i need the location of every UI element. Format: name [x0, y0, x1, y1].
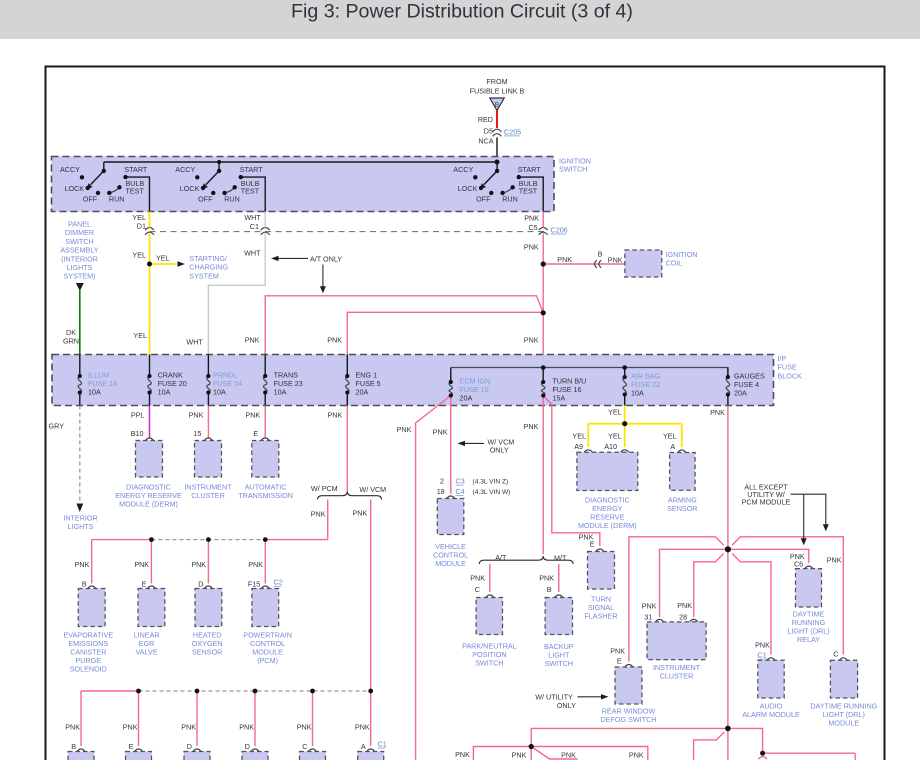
svg-text:10A: 10A — [88, 388, 101, 397]
svg-text:(4.3L VIN W): (4.3L VIN W) — [473, 489, 511, 496]
svg-text:A: A — [670, 442, 675, 451]
svg-text:(4.3L VIN Z): (4.3L VIN Z) — [473, 479, 509, 486]
svg-text:PNK: PNK — [608, 255, 623, 264]
svg-text:2: 2 — [440, 477, 444, 486]
svg-text:10A: 10A — [213, 388, 226, 397]
svg-text:C1: C1 — [757, 650, 766, 659]
svg-text:YEL: YEL — [608, 431, 622, 440]
svg-text:OFF: OFF — [198, 195, 213, 204]
svg-text:C: C — [302, 742, 307, 751]
svg-text:PNK: PNK — [239, 722, 254, 731]
svg-text:RUN: RUN — [502, 195, 518, 204]
svg-text:PNK: PNK — [397, 425, 412, 434]
svg-text:ACCY: ACCY — [175, 165, 195, 174]
svg-text:STARTING/: STARTING/ — [189, 254, 227, 263]
svg-text:LIGHTS: LIGHTS — [68, 522, 94, 531]
svg-text:LOCK: LOCK — [65, 184, 85, 193]
svg-text:C2: C2 — [274, 578, 283, 587]
svg-text:B: B — [71, 742, 76, 751]
svg-text:LOCK: LOCK — [458, 184, 478, 193]
svg-text:W/ VCM: W/ VCM — [359, 485, 386, 494]
svg-text:C1: C1 — [378, 739, 387, 748]
svg-text:SENSOR: SENSOR — [667, 504, 697, 513]
svg-text:MODULE: MODULE — [435, 559, 466, 568]
svg-text:DIMMER: DIMMER — [65, 228, 94, 237]
svg-text:PNK: PNK — [181, 722, 196, 731]
svg-text:MODULE: MODULE — [828, 719, 859, 728]
svg-text:PNK: PNK — [327, 335, 342, 344]
svg-text:C1: C1 — [250, 222, 259, 231]
svg-text:WHT: WHT — [186, 338, 203, 347]
svg-text:B: B — [547, 585, 552, 594]
svg-text:20A: 20A — [356, 388, 369, 397]
svg-text:28: 28 — [679, 613, 687, 622]
svg-text:WHT: WHT — [244, 213, 261, 222]
svg-text:C206: C206 — [551, 225, 568, 234]
svg-text:LIGHTS: LIGHTS — [67, 263, 93, 272]
svg-text:B10: B10 — [131, 429, 144, 438]
svg-text:10A: 10A — [274, 388, 287, 397]
svg-text:A/T: A/T — [495, 553, 507, 562]
svg-text:PNK: PNK — [455, 750, 470, 759]
svg-text:YEL: YEL — [608, 408, 622, 417]
svg-text:FROM: FROM — [486, 77, 507, 86]
svg-text:PNK: PNK — [297, 722, 312, 731]
svg-text:GRN: GRN — [63, 336, 79, 345]
svg-text:NCA: NCA — [478, 136, 493, 145]
svg-text:(INTERIOR: (INTERIOR — [61, 254, 98, 263]
svg-text:BLOCK: BLOCK — [778, 371, 803, 380]
svg-text:TEST: TEST — [126, 186, 145, 195]
svg-text:PNK: PNK — [311, 509, 326, 518]
svg-text:PNK: PNK — [557, 255, 572, 264]
svg-text:PNK: PNK — [134, 560, 149, 569]
svg-text:PNK: PNK — [524, 335, 539, 344]
svg-text:RUN: RUN — [224, 195, 240, 204]
svg-text:D: D — [187, 742, 192, 751]
svg-text:SYSTEM): SYSTEM) — [64, 272, 96, 281]
svg-text:20A: 20A — [734, 389, 747, 398]
svg-text:ONLY: ONLY — [490, 445, 509, 454]
svg-text:15: 15 — [193, 429, 201, 438]
svg-text:MODULE (DERM): MODULE (DERM) — [119, 499, 178, 508]
svg-text:YEL: YEL — [572, 431, 586, 440]
svg-text:PNK: PNK — [248, 560, 263, 569]
svg-text:START: START — [240, 165, 264, 174]
svg-text:PNK: PNK — [629, 750, 644, 759]
svg-text:C3: C3 — [456, 477, 465, 486]
svg-text:CLUSTER: CLUSTER — [660, 671, 694, 680]
svg-text:(PCM): (PCM) — [257, 656, 278, 665]
svg-text:D5: D5 — [484, 127, 493, 136]
svg-text:CLUSTER: CLUSTER — [191, 491, 225, 500]
svg-text:E: E — [142, 579, 147, 588]
svg-text:PNK: PNK — [524, 213, 539, 222]
svg-text:PPL: PPL — [131, 411, 145, 420]
svg-text:START: START — [518, 165, 542, 174]
svg-text:D: D — [198, 579, 203, 588]
svg-text:10A: 10A — [158, 388, 171, 397]
svg-text:MODULE (DERM): MODULE (DERM) — [578, 521, 637, 530]
svg-text:RUN: RUN — [109, 195, 125, 204]
svg-text:D: D — [245, 742, 250, 751]
svg-text:E: E — [590, 540, 595, 549]
svg-text:PNK: PNK — [123, 722, 138, 731]
svg-text:PNK: PNK — [65, 722, 80, 731]
svg-text:C5: C5 — [528, 223, 537, 232]
svg-text:YEL: YEL — [133, 331, 147, 340]
svg-text:F15: F15 — [248, 579, 260, 588]
svg-text:DEFOG SWITCH: DEFOG SWITCH — [601, 715, 657, 724]
svg-text:31: 31 — [644, 613, 652, 622]
svg-text:PNK: PNK — [677, 601, 692, 610]
svg-text:PANEL: PANEL — [68, 220, 91, 229]
svg-text:RELAY: RELAY — [797, 635, 820, 644]
svg-text:W/ PCM: W/ PCM — [311, 484, 338, 493]
svg-text:LOCK: LOCK — [180, 184, 200, 193]
svg-text:PNK: PNK — [75, 560, 90, 569]
svg-text:TRANSMISSION: TRANSMISSION — [238, 491, 293, 500]
svg-text:PNK: PNK — [245, 411, 260, 420]
svg-text:PNK: PNK — [827, 555, 842, 564]
svg-text:PNK: PNK — [433, 427, 448, 436]
svg-text:PNK: PNK — [245, 335, 260, 344]
svg-text:C: C — [475, 585, 480, 594]
svg-text:PNK: PNK — [353, 509, 368, 518]
svg-text:YEL: YEL — [663, 431, 677, 440]
svg-text:15A: 15A — [552, 394, 565, 403]
svg-text:PNK: PNK — [328, 411, 343, 420]
svg-text:B: B — [495, 101, 499, 108]
svg-text:TEST: TEST — [241, 186, 260, 195]
svg-text:SWITCH: SWITCH — [475, 658, 503, 667]
svg-text:Fig 3: Power Distribution Circ: Fig 3: Power Distribution Circuit (3 of … — [291, 0, 633, 22]
svg-text:SWITCH: SWITCH — [559, 165, 587, 174]
svg-text:B: B — [598, 250, 603, 259]
svg-text:PNK: PNK — [610, 647, 625, 656]
svg-text:CHARGING: CHARGING — [189, 263, 228, 272]
svg-text:PNK: PNK — [512, 750, 527, 759]
svg-text:A: A — [361, 742, 366, 751]
svg-text:E: E — [253, 429, 258, 438]
svg-text:A/T ONLY: A/T ONLY — [310, 254, 342, 263]
svg-text:ACCY: ACCY — [453, 165, 473, 174]
svg-text:PNK: PNK — [524, 243, 539, 252]
svg-text:18: 18 — [437, 487, 445, 496]
svg-text:COIL: COIL — [666, 259, 683, 268]
svg-text:FUSE: FUSE — [778, 363, 797, 372]
svg-text:ASSEMBLY: ASSEMBLY — [60, 246, 98, 255]
svg-text:RED: RED — [478, 115, 493, 124]
svg-text:OFF: OFF — [83, 195, 98, 204]
svg-text:PNK: PNK — [470, 573, 485, 582]
svg-text:YEL: YEL — [156, 253, 170, 262]
svg-text:PNK: PNK — [561, 750, 576, 759]
svg-text:E: E — [617, 656, 622, 665]
svg-text:D1: D1 — [137, 222, 146, 231]
svg-text:PNK: PNK — [642, 602, 657, 611]
svg-text:OFF: OFF — [476, 195, 491, 204]
svg-text:C: C — [833, 650, 838, 659]
svg-text:E: E — [129, 742, 134, 751]
svg-text:START: START — [124, 165, 148, 174]
svg-text:PNK: PNK — [710, 408, 725, 417]
svg-text:SYSTEM: SYSTEM — [189, 271, 219, 280]
svg-text:FLASHER: FLASHER — [584, 612, 617, 621]
svg-text:A9: A9 — [574, 442, 583, 451]
svg-text:SWITCH: SWITCH — [545, 659, 573, 668]
svg-text:ONLY: ONLY — [557, 701, 576, 710]
svg-text:C4: C4 — [456, 487, 465, 496]
svg-text:PCM MODULE: PCM MODULE — [742, 498, 791, 507]
svg-text:C205: C205 — [504, 127, 521, 136]
svg-text:PNK: PNK — [524, 422, 539, 431]
svg-text:YEL: YEL — [132, 251, 146, 260]
svg-text:B: B — [82, 579, 87, 588]
svg-text:ACCY: ACCY — [60, 165, 80, 174]
svg-text:M/T: M/T — [554, 554, 567, 563]
svg-text:10A: 10A — [631, 389, 644, 398]
svg-text:TEST: TEST — [519, 186, 538, 195]
svg-text:C6: C6 — [794, 559, 803, 568]
svg-text:A10: A10 — [604, 442, 617, 451]
svg-text:SOLENOID: SOLENOID — [70, 665, 107, 674]
svg-text:VALVE: VALVE — [136, 648, 158, 657]
svg-text:PNK: PNK — [189, 411, 204, 420]
svg-text:PNK: PNK — [755, 640, 770, 649]
svg-text:SENSOR: SENSOR — [192, 648, 222, 657]
svg-text:FUSIBLE LINK B: FUSIBLE LINK B — [470, 87, 525, 96]
svg-text:PNK: PNK — [191, 560, 206, 569]
svg-text:PNK: PNK — [355, 722, 370, 731]
svg-text:ALARM MODULE: ALARM MODULE — [742, 710, 800, 719]
svg-text:PNK: PNK — [539, 573, 554, 582]
svg-text:GRY: GRY — [49, 422, 65, 431]
svg-text:20A: 20A — [460, 394, 473, 403]
svg-text:SWITCH: SWITCH — [65, 237, 93, 246]
svg-text:WHT: WHT — [244, 249, 261, 258]
